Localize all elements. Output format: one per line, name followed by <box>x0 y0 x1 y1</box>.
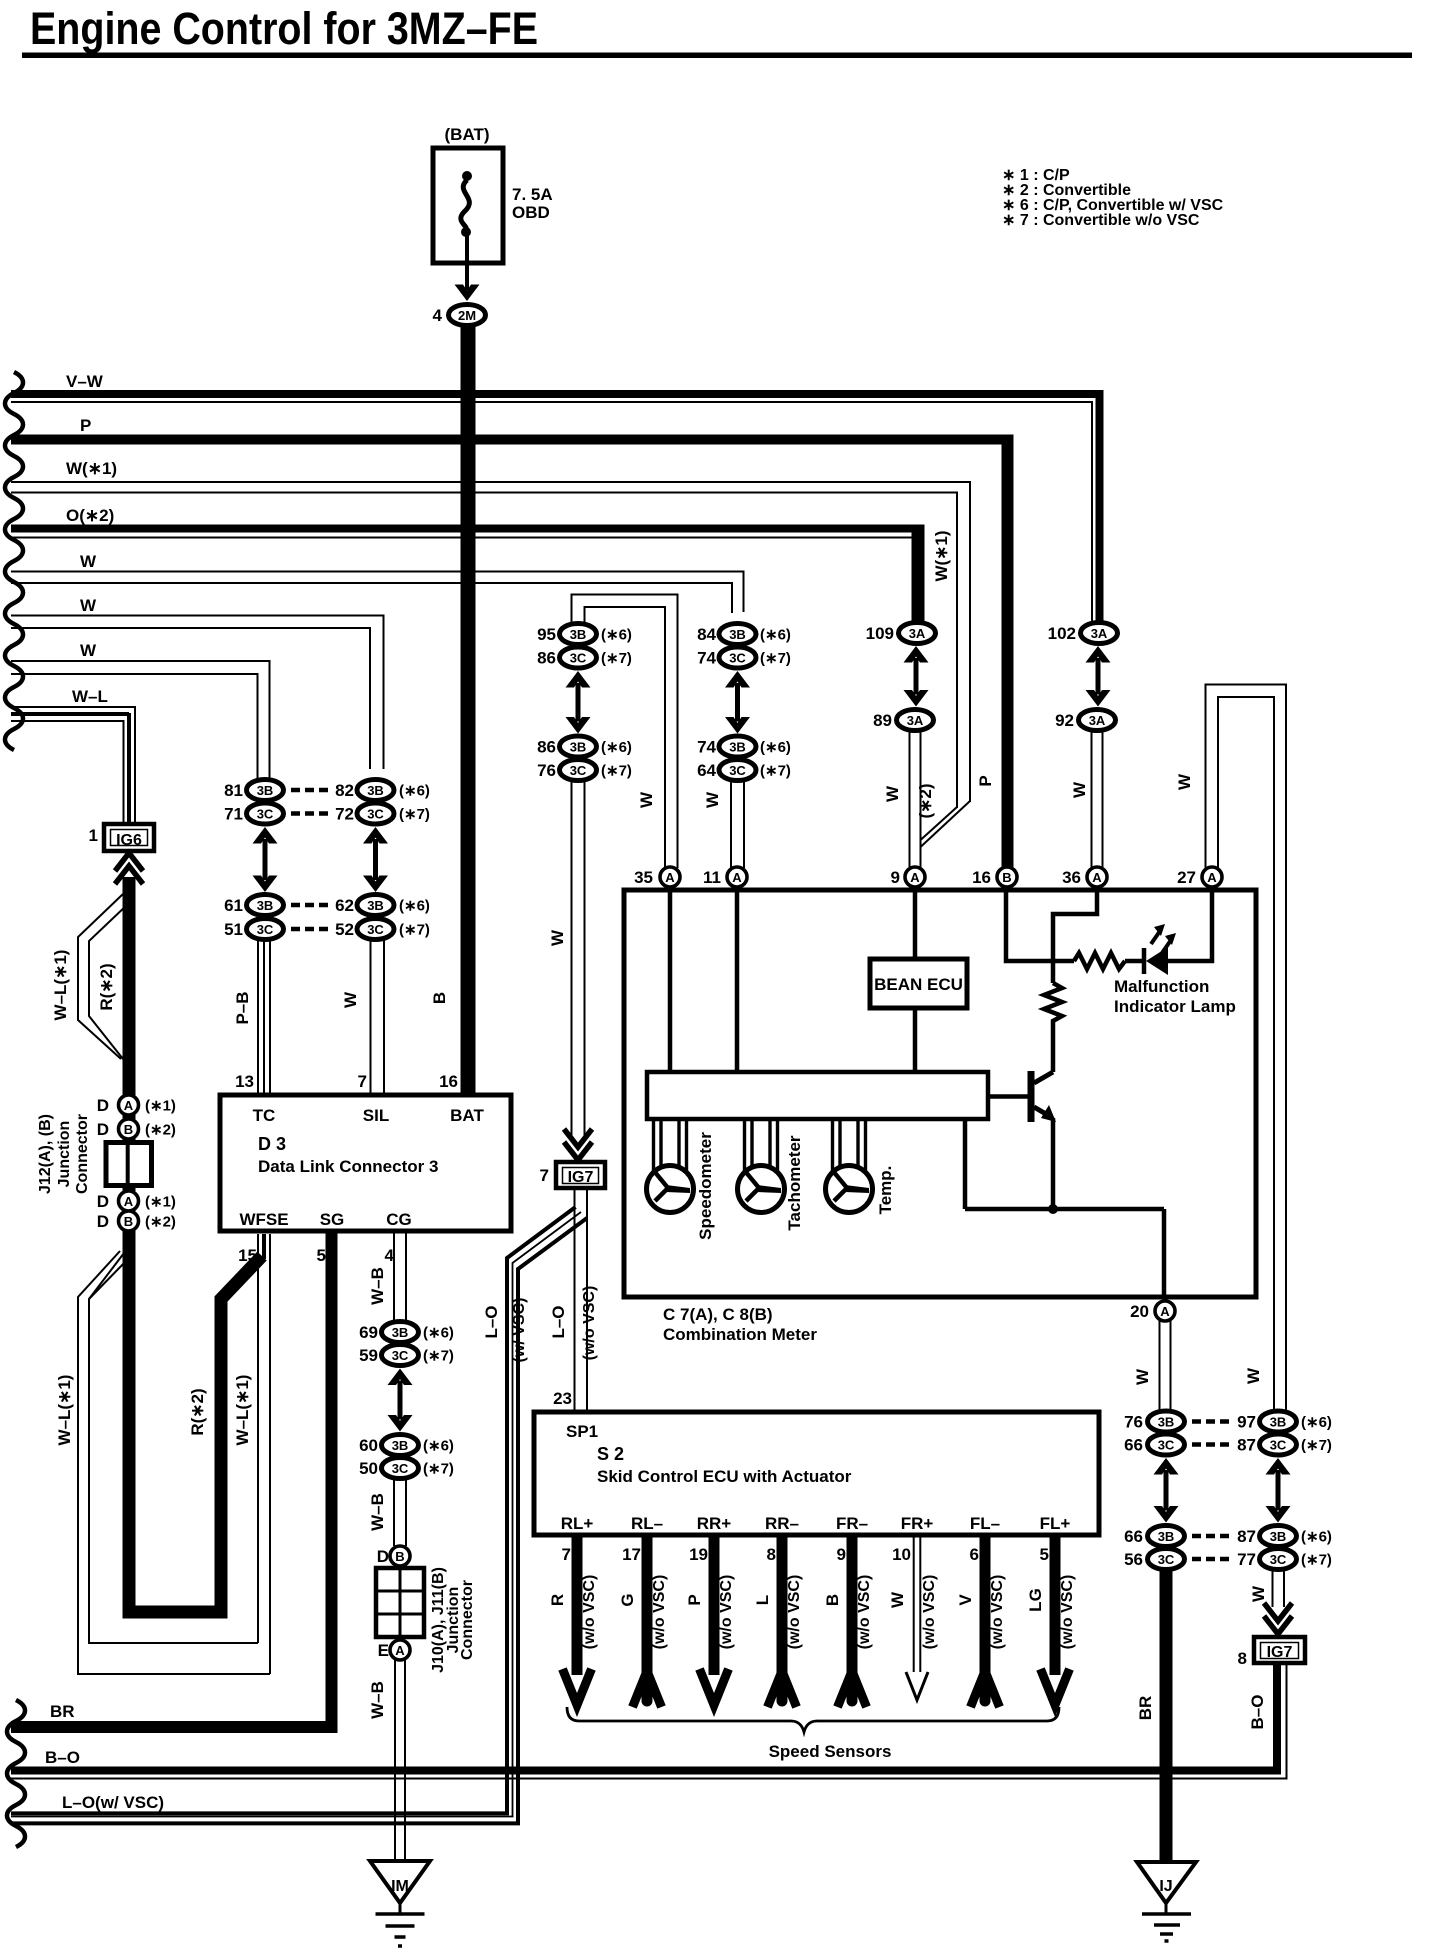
combination meter box C7(A), C8(B) <box>624 890 1256 1344</box>
svg-text:10: 10 <box>892 1545 911 1564</box>
svg-text:W: W <box>1133 1368 1152 1385</box>
title: Engine Control for 3MZ-FE <box>22 3 1412 58</box>
svg-text:A: A <box>910 870 920 885</box>
wire B-O (IG7-8 to bottom bus) <box>1248 1663 1287 1779</box>
svg-text:A: A <box>395 1643 405 1658</box>
svg-text:CG: CG <box>386 1210 412 1229</box>
svg-text:(∗6): (∗6) <box>1301 1529 1332 1546</box>
svg-text:3B: 3B <box>729 627 746 642</box>
wire W-B (CG down to J10) <box>368 1231 406 1322</box>
svg-text:(∗6): (∗6) <box>760 627 791 644</box>
wire BR bus <box>11 1702 338 1727</box>
IG6 box (pin 1) <box>89 824 154 851</box>
legend notes *1 *2 *6 *7 <box>1002 167 1224 229</box>
svg-text:SG: SG <box>320 1210 345 1229</box>
svg-text:L–O(w/ VSC): L–O(w/ VSC) <box>62 1793 164 1812</box>
svg-text:60: 60 <box>359 1436 378 1455</box>
svg-text:3C: 3C <box>729 650 746 665</box>
svg-text:P: P <box>976 775 995 786</box>
svg-text:V: V <box>956 1594 975 1606</box>
svg-text:92: 92 <box>1055 711 1074 730</box>
svg-text:V–W: V–W <box>66 372 104 391</box>
svg-text:3C: 3C <box>570 763 587 778</box>
connector stack 95 3B / 86 3C (*6/*7) <box>537 624 632 669</box>
svg-text:3B: 3B <box>1270 1529 1287 1544</box>
svg-text:3A: 3A <box>1091 626 1108 641</box>
connector stack 69 3B / 59 3C (*6/*7) <box>359 1322 454 1366</box>
transistor Q (NPN) <box>988 1027 1056 1209</box>
svg-text:R(∗2): R(∗2) <box>188 1388 207 1435</box>
junction connector J12(A),(B) <box>37 1095 176 1231</box>
svg-text:A: A <box>1160 1304 1170 1319</box>
wire W bus (to 81/71) <box>11 641 270 781</box>
svg-text:FL–: FL– <box>970 1514 1000 1533</box>
svg-text:R(∗2): R(∗2) <box>97 963 116 1010</box>
svg-text:50: 50 <box>359 1459 378 1478</box>
svg-text:BAT: BAT <box>450 1106 484 1125</box>
svg-text:(∗2): (∗2) <box>916 783 935 818</box>
svg-text:(∗6): (∗6) <box>1301 1414 1332 1431</box>
svg-text:RL+: RL+ <box>561 1514 594 1533</box>
speed sensor wire RL+ pin 7 (R) <box>548 1514 598 1705</box>
wire emitter to bus bar and pin 20 <box>965 1119 1164 1297</box>
svg-text:7: 7 <box>562 1545 571 1564</box>
svg-text:13: 13 <box>235 1072 254 1091</box>
connector 92 3A <box>1055 710 1115 731</box>
speed sensor wire FR+ pin 10 (W) <box>888 1514 938 1700</box>
wire R(*2) (IG6 down through J12 to bottom U-turn to WFSE) <box>97 877 264 1612</box>
connector 102 3A <box>1048 623 1118 644</box>
meter pin 16 B <box>972 867 1017 887</box>
svg-text:3B: 3B <box>367 783 384 798</box>
svg-text:3B: 3B <box>257 783 274 798</box>
meter pin 27 A <box>1177 867 1222 887</box>
svg-text:(w/o VSC): (w/o VSC) <box>921 1575 938 1650</box>
svg-text:3C: 3C <box>1158 1552 1175 1567</box>
svg-text:66: 66 <box>1124 1527 1143 1546</box>
svg-text:3A: 3A <box>1089 713 1106 728</box>
DLC3 Data Link Connector 3 box <box>220 1095 511 1231</box>
wire W (92 3A to meter pin 36) <box>1070 732 1103 868</box>
svg-text:(∗1): (∗1) <box>145 1194 176 1211</box>
svg-text:L–O: L–O <box>549 1305 568 1338</box>
svg-text:3C: 3C <box>257 922 274 937</box>
svg-text:Connector: Connector <box>74 1114 91 1194</box>
svg-text:82: 82 <box>335 781 354 800</box>
wire W-L(*1) bypass loop (upper) <box>51 894 129 1064</box>
svg-text:WFSE: WFSE <box>239 1210 288 1229</box>
mating arrows 74-74 <box>725 671 750 688</box>
svg-text:R: R <box>548 1594 567 1606</box>
svg-text:52: 52 <box>335 920 354 939</box>
svg-text:W–L(∗1): W–L(∗1) <box>55 1375 74 1446</box>
svg-text:27: 27 <box>1177 868 1196 887</box>
svg-text:(w/o VSC): (w/o VSC) <box>786 1575 803 1650</box>
svg-text:3C: 3C <box>1158 1437 1175 1452</box>
connector stack 61 3B / 51 3C <box>224 895 283 940</box>
wire W (meter pin 20 to 76 3B) <box>1133 1321 1171 1412</box>
dashed link 61-62 / 51-52 <box>291 905 328 929</box>
svg-text:(∗7): (∗7) <box>1301 1437 1332 1454</box>
junction connector J10(A), J11(B) <box>376 1546 476 1673</box>
svg-text:W: W <box>1244 1367 1263 1384</box>
svg-text:19: 19 <box>689 1545 708 1564</box>
svg-text:B: B <box>395 1549 404 1564</box>
wire O(*2) bus <box>11 506 925 623</box>
label Malfunction Indicator Lamp <box>1114 977 1236 1016</box>
svg-text:(∗7): (∗7) <box>601 763 632 780</box>
svg-text:B: B <box>124 1214 133 1229</box>
svg-text:(w/o VSC): (w/o VSC) <box>581 1575 598 1650</box>
svg-text:P: P <box>685 1594 704 1605</box>
svg-text:B–O: B–O <box>1248 1695 1267 1730</box>
svg-text:W: W <box>1249 1585 1268 1602</box>
wire P-B (51 3C to DLC3 TC) <box>233 940 270 1095</box>
connector stack 97 3B / 87 3C (*6/*7) <box>1237 1411 1332 1455</box>
ground IM <box>370 1861 430 1946</box>
svg-text:W: W <box>1070 781 1089 798</box>
svg-text:87: 87 <box>1237 1527 1256 1546</box>
S2 Skid Control ECU box <box>534 1389 1099 1535</box>
svg-text:(∗1): (∗1) <box>145 1098 176 1115</box>
svg-text:76: 76 <box>537 761 556 780</box>
svg-text:71: 71 <box>224 805 243 824</box>
svg-text:A: A <box>1092 870 1102 885</box>
svg-text:(w/o VSC): (w/o VSC) <box>718 1575 735 1650</box>
svg-text:(∗7): (∗7) <box>1301 1552 1332 1569</box>
svg-text:IM: IM <box>391 1878 409 1895</box>
wire W bus (to 84/74) <box>11 552 744 613</box>
wire meter 16B down <box>1006 890 1074 961</box>
mating arrows 59-60 <box>388 1369 413 1386</box>
svg-text:(∗2): (∗2) <box>145 1122 176 1139</box>
svg-text:FR–: FR– <box>836 1514 868 1533</box>
svg-text:6: 6 <box>970 1545 979 1564</box>
svg-text:3C: 3C <box>367 806 384 821</box>
svg-text:8: 8 <box>1238 1649 1247 1668</box>
svg-text:Indicator Lamp: Indicator Lamp <box>1114 997 1236 1016</box>
svg-text:102: 102 <box>1048 624 1076 643</box>
meter pin 9 A <box>891 867 925 887</box>
svg-text:RR–: RR– <box>765 1514 799 1533</box>
speed sensors brace <box>567 1707 1059 1732</box>
svg-text:16: 16 <box>972 868 991 887</box>
svg-text:W–B: W–B <box>368 1681 387 1719</box>
svg-text:3C: 3C <box>392 1348 409 1363</box>
IG7 box (pin 7) <box>540 1162 605 1188</box>
wire meter 36A to resistor <box>1053 890 1097 983</box>
wire L-O (w/ VSC) bus <box>11 1793 520 1823</box>
mating arrows 87-87 <box>1266 1458 1291 1475</box>
svg-text:O(∗2): O(∗2) <box>66 506 114 525</box>
svg-text:3B: 3B <box>1158 1529 1175 1544</box>
svg-text:35: 35 <box>634 868 653 887</box>
svg-text:(w/o VSC): (w/o VSC) <box>1059 1575 1076 1650</box>
svg-text:W–L: W–L <box>72 687 108 706</box>
svg-text:OBD: OBD <box>512 203 550 222</box>
svg-text:W(∗1): W(∗1) <box>932 530 951 581</box>
svg-text:95: 95 <box>537 625 556 644</box>
svg-text:W–B: W–B <box>368 1493 387 1531</box>
svg-text:W: W <box>548 929 567 946</box>
svg-text:RL–: RL– <box>631 1514 663 1533</box>
svg-text:61: 61 <box>224 896 243 915</box>
resistor (vertical, transistor collector) <box>1044 983 1062 1027</box>
svg-text:P: P <box>80 416 91 435</box>
svg-text:(∗7): (∗7) <box>399 806 430 823</box>
svg-text:3B: 3B <box>570 739 587 754</box>
speed sensor wire RR– pin 8 (L) <box>753 1514 803 1707</box>
svg-text:D: D <box>97 1192 109 1211</box>
svg-text:Malfunction: Malfunction <box>1114 977 1209 996</box>
wire W-L bus (to IG6) <box>11 687 135 826</box>
svg-text:84: 84 <box>697 625 716 644</box>
svg-text:W(∗1): W(∗1) <box>66 459 117 478</box>
svg-text:8: 8 <box>767 1545 776 1564</box>
emitter node junction <box>1048 1204 1058 1214</box>
svg-text:D: D <box>97 1212 109 1231</box>
svg-text:(∗2): (∗2) <box>145 1214 176 1231</box>
wire LED to meter pin 27 <box>1210 890 1215 963</box>
connector stack 87 3B / 77 3C (*6/*7) <box>1237 1526 1332 1570</box>
wire W (77 3C to IG7 pin 8) <box>1249 1570 1284 1607</box>
svg-text:A: A <box>732 870 742 885</box>
svg-text:9: 9 <box>837 1545 846 1564</box>
svg-text:69: 69 <box>359 1323 378 1342</box>
mating arrows 86-86 <box>566 671 591 688</box>
svg-text:Junction: Junction <box>56 1121 73 1188</box>
svg-text:3C: 3C <box>729 763 746 778</box>
svg-text:3C: 3C <box>570 650 587 665</box>
wire W-B (J10 to IM ground) <box>368 1660 405 1861</box>
svg-text:Speedometer: Speedometer <box>696 1132 715 1240</box>
connector stack 76 3B / 66 3C <box>1124 1411 1184 1455</box>
wire W (76 3C to IG7) <box>548 781 585 1136</box>
fuse 7.5A OBD (BAT) <box>433 125 553 263</box>
svg-text:BEAN ECU: BEAN ECU <box>874 975 963 994</box>
svg-text:FL+: FL+ <box>1040 1514 1071 1533</box>
svg-text:(∗7): (∗7) <box>423 1348 454 1365</box>
gauge Temp. <box>826 1117 873 1213</box>
svg-text:(w/ VSC): (w/ VSC) <box>511 1298 528 1363</box>
wire W(*1) bus <box>11 459 970 847</box>
DLC3 pin numbers 13 7 16 <box>235 1072 458 1091</box>
wire W (52 3C to DLC3 SIL) <box>341 940 384 1095</box>
wire B-O bus <box>11 1748 1288 1779</box>
connector stack 86 3B / 76 3C (*6/*7) <box>537 736 632 781</box>
mating arrows 66-66 <box>1154 1458 1179 1475</box>
svg-text:IG6: IG6 <box>116 832 142 849</box>
svg-text:3B: 3B <box>1270 1414 1287 1429</box>
svg-text:3B: 3B <box>367 898 384 913</box>
svg-text:5: 5 <box>317 1246 326 1265</box>
wire fuse to connector 2M <box>455 236 480 301</box>
svg-text:7: 7 <box>358 1072 367 1091</box>
BEAN ECU <box>870 890 967 1072</box>
svg-text:2M: 2M <box>458 308 476 323</box>
svg-text:L–O: L–O <box>482 1305 501 1338</box>
svg-text:62: 62 <box>335 896 354 915</box>
svg-text:A: A <box>665 870 675 885</box>
dashed link 81-82 / 71-72 <box>291 790 328 814</box>
svg-text:D: D <box>97 1120 109 1139</box>
wire V-W bus <box>11 372 1104 624</box>
svg-text:IJ: IJ <box>1159 1878 1172 1895</box>
svg-text:3C: 3C <box>392 1461 409 1476</box>
IG7 box (pin 8) <box>1238 1637 1305 1668</box>
svg-text:W: W <box>80 596 97 615</box>
svg-text:W: W <box>637 791 656 808</box>
connector stack 62 3B / 52 3C (*6/*7) <box>335 895 430 940</box>
svg-text:3B: 3B <box>257 898 274 913</box>
svg-text:3C: 3C <box>257 806 274 821</box>
svg-text:A: A <box>1207 870 1217 885</box>
gauge Tachometer <box>738 1117 785 1213</box>
svg-text:4: 4 <box>433 306 443 325</box>
svg-text:L: L <box>753 1595 772 1605</box>
svg-text:W: W <box>80 552 97 571</box>
svg-text:Data Link Connector 3: Data Link Connector 3 <box>258 1157 438 1176</box>
wire bridge W (95 3B to meter pin 35) <box>572 594 679 869</box>
svg-text:(∗6): (∗6) <box>399 783 430 800</box>
svg-text:Speed Sensors: Speed Sensors <box>769 1742 892 1761</box>
svg-text:(w/o VSC): (w/o VSC) <box>651 1575 668 1650</box>
wire W (meter pin 27 to 97 3B) <box>1175 684 1287 1413</box>
connector 109 3A <box>866 623 936 644</box>
svg-text:FR+: FR+ <box>901 1514 934 1533</box>
svg-text:11: 11 <box>703 868 721 887</box>
svg-text:(∗6): (∗6) <box>423 1325 454 1342</box>
svg-text:A: A <box>124 1098 134 1113</box>
wire BR (56 3C to IJ ground) <box>1136 1570 1166 1862</box>
gauge Speedometer <box>647 1117 694 1213</box>
wire L-O (w/ VSC) (IG7 to bottom bus) <box>482 1188 587 1823</box>
svg-text:C 7(A), C 8(B): C 7(A), C 8(B) <box>663 1305 773 1324</box>
svg-text:(∗7): (∗7) <box>601 650 632 667</box>
svg-text:G: G <box>618 1593 637 1606</box>
svg-text:(w/o VSC): (w/o VSC) <box>581 1286 598 1361</box>
svg-text:(BAT): (BAT) <box>445 125 490 144</box>
svg-text:7. 5A: 7. 5A <box>512 185 553 204</box>
svg-text:W–L(∗1): W–L(∗1) <box>51 950 70 1021</box>
svg-text:LG: LG <box>1026 1588 1045 1612</box>
LED malfunction indicator lamp <box>1125 924 1214 975</box>
svg-text:3B: 3B <box>729 739 746 754</box>
svg-text:7: 7 <box>540 1166 549 1185</box>
svg-text:B: B <box>430 992 449 1004</box>
wire W (64 3C to meter pin 11) <box>703 781 744 868</box>
svg-text:B–O: B–O <box>45 1748 80 1767</box>
svg-text:74: 74 <box>697 738 716 757</box>
svg-text:D: D <box>97 1096 109 1115</box>
speed sensor wire RR+ pin 19 (P) <box>685 1514 735 1705</box>
svg-text:W: W <box>888 1591 907 1608</box>
svg-text:(∗6): (∗6) <box>399 898 430 915</box>
wire W bus (to 82/72) <box>11 596 384 769</box>
svg-text:64: 64 <box>697 761 716 780</box>
ground IJ <box>1137 1862 1196 1941</box>
svg-text:3C: 3C <box>367 922 384 937</box>
svg-text:D: D <box>377 1547 389 1566</box>
svg-text:109: 109 <box>866 624 894 643</box>
svg-text:Engine Control for 3MZ–FE: Engine Control for 3MZ–FE <box>30 3 538 54</box>
svg-text:W–L(∗1): W–L(∗1) <box>233 1375 252 1446</box>
svg-text:W: W <box>341 991 360 1008</box>
svg-text:BR: BR <box>1136 1696 1155 1721</box>
connector stack 60 3B / 50 3C (*6/*7) <box>359 1435 454 1479</box>
mating arrows 71-61 <box>253 827 278 844</box>
svg-text:TC: TC <box>253 1106 276 1125</box>
connector 4 (2M) <box>433 305 486 326</box>
svg-text:W: W <box>883 785 902 802</box>
svg-text:3C: 3C <box>1270 1437 1287 1452</box>
svg-text:Skid Control ECU with Actuator: Skid Control ECU with Actuator <box>597 1467 852 1486</box>
svg-text:86: 86 <box>537 738 556 757</box>
svg-text:3A: 3A <box>907 713 924 728</box>
svg-text:P–B: P–B <box>233 991 252 1024</box>
svg-text:IG7: IG7 <box>1267 1644 1293 1661</box>
svg-text:(∗6): (∗6) <box>601 627 632 644</box>
svg-text:51: 51 <box>224 920 243 939</box>
speed sensor wire FL+ pin 5 (LG) <box>1026 1514 1076 1705</box>
svg-text:89: 89 <box>873 711 892 730</box>
svg-text:(∗7): (∗7) <box>399 922 430 939</box>
svg-text:Temp.: Temp. <box>876 1166 895 1215</box>
svg-text:23: 23 <box>553 1389 572 1408</box>
svg-text:(∗6): (∗6) <box>423 1438 454 1455</box>
speed sensor wire FL– pin 6 (V) <box>956 1514 1006 1707</box>
arrow into IG7-8 (double chevron down) <box>1264 1603 1292 1621</box>
svg-text:D 3: D 3 <box>258 1134 286 1154</box>
connector 89 3A <box>873 710 933 731</box>
meter pin 11 A <box>703 867 747 887</box>
svg-text:16: 16 <box>439 1072 458 1091</box>
mating arrows 102-92 <box>1086 646 1111 663</box>
left bus torn edge (top) <box>5 372 23 750</box>
wire W-B (50 3C to J10/J11) <box>368 1479 406 1546</box>
wire L-O (w/o VSC) (IG7 to SP1 pin 23) <box>549 1208 598 1412</box>
svg-text:(w/o VSC): (w/o VSC) <box>856 1575 873 1650</box>
svg-text:B: B <box>1002 870 1011 885</box>
svg-text:A: A <box>124 1194 134 1209</box>
dashed link 66-87 / 56-77 <box>1192 1536 1229 1559</box>
meter pin 36 A <box>1062 867 1107 887</box>
svg-text:B: B <box>124 1122 133 1137</box>
svg-text:36: 36 <box>1062 868 1081 887</box>
arrow into IG7 (double chevron down) <box>564 1129 592 1147</box>
svg-text:IG7: IG7 <box>568 1169 594 1186</box>
DLC3 pin numbers 15 5 4 <box>238 1246 394 1265</box>
wire SG to BR bus <box>326 1231 338 1733</box>
resistor (horizontal, MIL) <box>1074 953 1125 969</box>
svg-text:72: 72 <box>335 805 354 824</box>
svg-text:∗ 7 : Convertible w/o VSC: ∗ 7 : Convertible w/o VSC <box>1002 212 1200 229</box>
dashed link 76-97 / 66-87 <box>1192 1422 1229 1445</box>
svg-text:3B: 3B <box>1158 1414 1175 1429</box>
svg-text:W: W <box>1175 773 1194 790</box>
svg-text:Combination Meter: Combination Meter <box>663 1325 817 1344</box>
svg-text:W–B: W–B <box>368 1267 387 1305</box>
wire W (*2) (89 3A to meter pin 9) <box>883 732 935 868</box>
svg-text:5: 5 <box>1040 1545 1049 1564</box>
wire B battery feed (2M to DLC3 BAT pin 16) <box>430 326 468 1095</box>
svg-text:3A: 3A <box>909 626 926 641</box>
svg-text:76: 76 <box>1124 1413 1143 1432</box>
svg-text:3B: 3B <box>570 627 587 642</box>
svg-text:87: 87 <box>1237 1436 1256 1455</box>
svg-text:Tachometer: Tachometer <box>785 1135 804 1230</box>
wire W-L(*1) (WFSE loop) <box>55 1234 270 1674</box>
